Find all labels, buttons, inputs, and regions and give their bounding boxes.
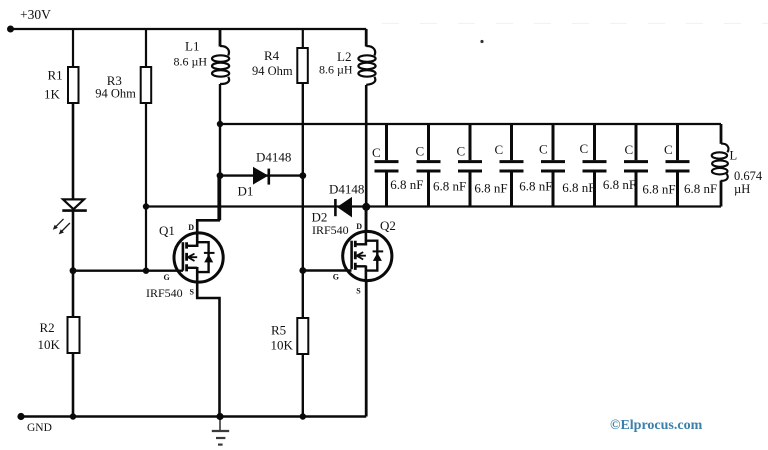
svg-text:+30V: +30V	[20, 7, 51, 22]
svg-text:Q1: Q1	[159, 223, 175, 238]
svg-text:0.674: 0.674	[734, 169, 763, 183]
svg-text:S: S	[356, 287, 361, 296]
svg-text:G: G	[164, 273, 170, 282]
svg-text:D4148: D4148	[329, 182, 364, 197]
svg-text:R1: R1	[48, 68, 63, 83]
svg-text:C: C	[664, 142, 673, 157]
svg-text:94 Ohm: 94 Ohm	[252, 64, 293, 78]
svg-text:D: D	[356, 222, 362, 231]
svg-text:6.8 nF: 6.8 nF	[474, 181, 507, 196]
svg-text:94 Ohm: 94 Ohm	[95, 87, 136, 101]
svg-text:10K: 10K	[271, 338, 294, 353]
svg-text:C: C	[625, 142, 634, 157]
svg-text:G: G	[333, 273, 339, 282]
svg-text:C: C	[495, 142, 504, 157]
svg-text:S: S	[190, 288, 195, 297]
svg-text:IRF540: IRF540	[146, 286, 183, 300]
svg-text:L: L	[730, 149, 738, 163]
svg-text:R2: R2	[40, 320, 55, 335]
svg-text:L1: L1	[185, 39, 199, 54]
svg-text:R5: R5	[271, 323, 286, 338]
svg-text:6.8 nF: 6.8 nF	[684, 181, 717, 196]
svg-text:C: C	[539, 142, 548, 157]
svg-text:6.8 nF: 6.8 nF	[642, 182, 675, 197]
svg-text:6.8 nF: 6.8 nF	[519, 178, 552, 193]
svg-text:1K: 1K	[44, 87, 61, 102]
svg-text:6.8 nF: 6.8 nF	[562, 180, 595, 195]
svg-text:C: C	[372, 145, 381, 160]
svg-text:D1: D1	[238, 184, 254, 199]
svg-text:C: C	[580, 141, 589, 156]
svg-text:µH: µH	[734, 182, 750, 196]
svg-text:6.8 nF: 6.8 nF	[433, 178, 466, 193]
svg-text:6.8 nF: 6.8 nF	[603, 177, 636, 192]
svg-text:R4: R4	[264, 48, 280, 63]
svg-text:C: C	[457, 144, 466, 159]
svg-text:D4148: D4148	[256, 150, 291, 165]
svg-text:6.8 nF: 6.8 nF	[390, 177, 423, 192]
svg-text:©Elprocus.com: ©Elprocus.com	[610, 418, 703, 433]
svg-text:D: D	[188, 223, 194, 232]
svg-text:C: C	[416, 144, 425, 159]
svg-text:8.6 µH: 8.6 µH	[319, 63, 353, 77]
svg-text:8.6 µH: 8.6 µH	[174, 55, 208, 69]
svg-text:IRF540: IRF540	[312, 223, 349, 237]
svg-text:GND: GND	[27, 422, 52, 434]
svg-text:10K: 10K	[38, 337, 61, 352]
svg-text:Q2: Q2	[380, 218, 396, 233]
